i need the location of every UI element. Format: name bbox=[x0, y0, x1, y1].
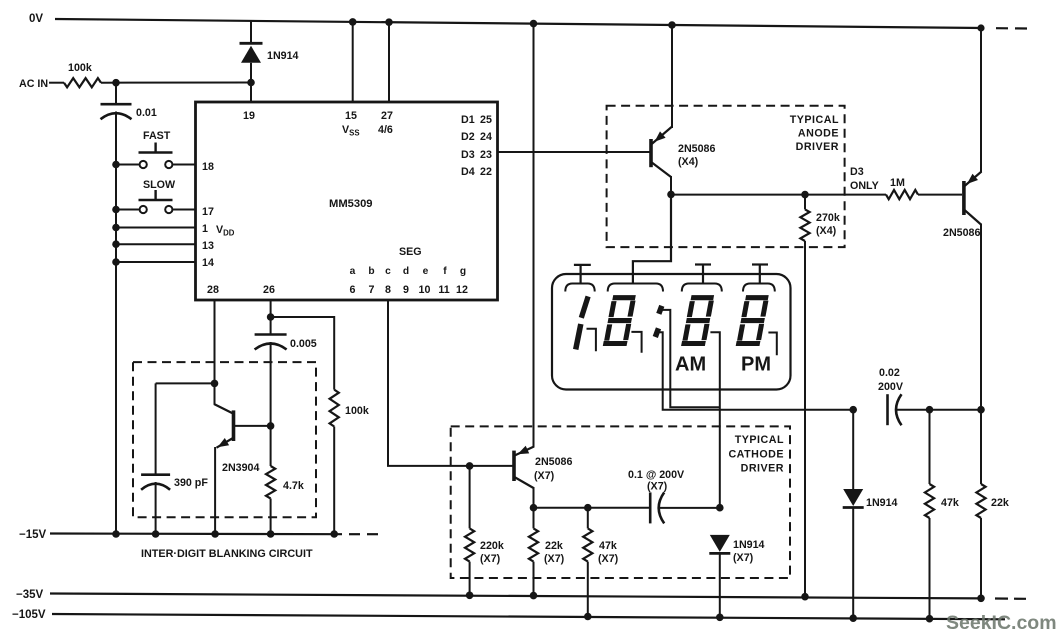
svg-text:7: 7 bbox=[369, 284, 375, 296]
node cathode collector junction bbox=[530, 504, 538, 512]
svg-text:−105V: −105V bbox=[12, 609, 46, 621]
svg-text:200V: 200V bbox=[878, 381, 904, 393]
node 22k right top junction bbox=[977, 406, 985, 414]
svg-text:2N5086: 2N5086 bbox=[943, 227, 980, 239]
svg-text:390 pF: 390 pF bbox=[174, 477, 208, 489]
svg-text:D1: D1 bbox=[461, 114, 475, 126]
svg-text:D4: D4 bbox=[461, 166, 475, 178]
op-amp U1 MM5309 package outline bbox=[196, 102, 498, 300]
svg-text:1N914: 1N914 bbox=[866, 497, 898, 509]
svg-text:0.01: 0.01 bbox=[136, 107, 157, 119]
digit 1 segment lead stub bbox=[587, 329, 596, 351]
svg-text:CATHODE: CATHODE bbox=[728, 449, 784, 461]
wire pin 27 lead to 0V bbox=[388, 22, 390, 102]
svg-text:PM: PM bbox=[741, 354, 771, 376]
wire SLOW to pin 17 bbox=[173, 209, 197, 211]
wire FAST to pin 18 bbox=[173, 164, 197, 166]
svg-text:AM: AM bbox=[675, 354, 706, 376]
svg-text:g: g bbox=[460, 266, 466, 277]
display digit 1 numeral 1 bbox=[576, 296, 588, 349]
node 220k bottom -35V junction bbox=[466, 592, 474, 600]
node 47k right top junction bbox=[926, 406, 934, 414]
capacitor 390 pF bbox=[141, 383, 170, 534]
transistor Q3 2N5086 cathode driver bbox=[514, 446, 535, 508]
svg-text:D2: D2 bbox=[461, 131, 475, 143]
wire 1M to Q2 base bbox=[918, 194, 962, 196]
wire pin 15 lead to 0V bbox=[352, 22, 354, 102]
wire 100k to pin 19 node bbox=[101, 82, 251, 84]
svg-text:c: c bbox=[385, 266, 391, 277]
wire seg pin 8 to cathode base bbox=[388, 300, 513, 466]
svg-text:(X7): (X7) bbox=[647, 481, 668, 493]
svg-text:28: 28 bbox=[207, 284, 219, 296]
transistor Q1 2N5086 anode driver bbox=[651, 127, 672, 194]
cathode driver dashed box bbox=[451, 426, 790, 578]
node pin27 rail junction bbox=[385, 18, 393, 26]
svg-text:SEG: SEG bbox=[399, 246, 422, 258]
switch SLOW pushbutton bbox=[139, 190, 173, 213]
svg-text:AC IN: AC IN bbox=[19, 78, 48, 90]
digit 1 anode bracket bbox=[565, 284, 594, 292]
svg-text:100k: 100k bbox=[345, 405, 369, 417]
node blanking collector junction bbox=[211, 380, 219, 388]
resistor 47k X7 bbox=[583, 508, 592, 617]
svg-text:−15V: −15V bbox=[19, 529, 47, 541]
wire 270k bottom to -35V bbox=[804, 241, 806, 597]
resistor 100k blanking bbox=[330, 390, 339, 534]
digit 2 segment lead stub bbox=[631, 332, 641, 353]
resistor 22k right bbox=[976, 410, 985, 599]
svg-text:6: 6 bbox=[350, 284, 356, 296]
svg-text:13: 13 bbox=[202, 240, 214, 252]
blanking circuit dashed box bbox=[133, 362, 316, 517]
node pin14 junction bbox=[112, 258, 120, 266]
wire 0.1 cap to 1N914 X7 bbox=[658, 507, 720, 509]
svg-text:FAST: FAST bbox=[143, 130, 171, 142]
digit 2 anode bracket bbox=[608, 284, 663, 292]
wire pin 14 bbox=[116, 261, 197, 263]
svg-text:2N5086: 2N5086 bbox=[535, 456, 572, 468]
svg-text:220k: 220k bbox=[480, 540, 504, 552]
wire colon lower to 0.02 junction bbox=[657, 332, 853, 410]
transistor Q2 2N5086 right bbox=[963, 172, 981, 410]
svg-text:TYPICAL: TYPICAL bbox=[735, 434, 784, 446]
svg-text:DRIVER: DRIVER bbox=[741, 463, 784, 475]
svg-text:ANODE: ANODE bbox=[798, 128, 839, 140]
wire Q2 emitter to 0V bbox=[980, 28, 982, 173]
svg-text:1: 1 bbox=[202, 223, 208, 235]
svg-text:b: b bbox=[368, 266, 374, 277]
wire D3 pin 23 to anode driver base bbox=[498, 151, 650, 153]
svg-text:270k: 270k bbox=[816, 212, 840, 224]
svg-text:11: 11 bbox=[438, 284, 449, 296]
resistor 47k right bbox=[925, 410, 934, 619]
svg-text:−35V: −35V bbox=[16, 589, 44, 601]
svg-text:(X4): (X4) bbox=[678, 156, 699, 168]
node 270k bottom -35V junction bbox=[801, 593, 809, 601]
wire left rail to SLOW bbox=[116, 209, 140, 211]
svg-text:0V: 0V bbox=[29, 13, 43, 25]
svg-text:0.005: 0.005 bbox=[290, 338, 317, 350]
capacitor 0.01 bbox=[101, 104, 132, 119]
node blanking base junction bbox=[267, 422, 275, 430]
node pin 26 junction bbox=[267, 313, 275, 321]
svg-text:22k: 22k bbox=[545, 540, 563, 552]
resistor 220k X7 bbox=[465, 466, 474, 595]
svg-text:14: 14 bbox=[202, 257, 214, 269]
node VDD junction bbox=[112, 224, 120, 232]
svg-text:19: 19 bbox=[243, 110, 255, 122]
-15V supply rail bbox=[50, 532, 342, 535]
-35V rail dashed continuation bbox=[995, 597, 1026, 599]
node 100k -15V junction bbox=[330, 530, 338, 538]
node pin13 junction bbox=[112, 240, 120, 248]
svg-text:2N3904: 2N3904 bbox=[222, 462, 259, 474]
display module outline bbox=[552, 274, 791, 390]
svg-text:MM5309: MM5309 bbox=[329, 198, 373, 210]
svg-text:18: 18 bbox=[202, 161, 214, 173]
svg-text:4.7k: 4.7k bbox=[283, 480, 304, 492]
svg-text:17: 17 bbox=[202, 206, 214, 218]
capacitor 0.1 X7 bbox=[650, 492, 664, 523]
svg-text:15: 15 bbox=[345, 110, 357, 122]
node AC junction bbox=[112, 79, 120, 87]
svg-text:(X7): (X7) bbox=[480, 553, 501, 565]
svg-text:10: 10 bbox=[419, 284, 431, 296]
wire pin 26 lead bbox=[270, 300, 272, 335]
svg-text:D3: D3 bbox=[850, 166, 864, 178]
diode 1N914 X7 cathode driver bbox=[709, 535, 730, 617]
svg-text:23: 23 bbox=[480, 149, 492, 161]
svg-text:VDD: VDD bbox=[216, 224, 235, 238]
node left column -15V junction bbox=[112, 530, 120, 538]
node 390pF -15V junction bbox=[152, 530, 160, 538]
svg-text:(X4): (X4) bbox=[816, 225, 837, 237]
capacitor 0.005 bbox=[255, 335, 287, 350]
node 22k bottom -35V junction bbox=[530, 592, 538, 600]
wire 0.005 to base node bbox=[270, 342, 272, 466]
wire left rail to FAST bbox=[116, 164, 140, 166]
svg-text:26: 26 bbox=[263, 284, 275, 296]
resistor 22k X7 bbox=[529, 508, 538, 596]
node anode collector junction bbox=[667, 191, 675, 199]
svg-text:47k: 47k bbox=[941, 497, 959, 509]
node FAST junction bbox=[112, 161, 120, 169]
svg-text:a: a bbox=[350, 266, 356, 277]
svg-text:12: 12 bbox=[456, 284, 468, 296]
wire pin 19 lead bbox=[250, 83, 252, 103]
transistor Q4 2N3904 blanking bbox=[214, 404, 269, 534]
wire AC IN to R 100k bbox=[49, 82, 64, 84]
svg-text:47k: 47k bbox=[599, 540, 617, 552]
display digit 3 numeral 8 bbox=[682, 298, 714, 344]
digit 4 segment lead stub bbox=[768, 333, 776, 356]
wire pin 13 bbox=[116, 243, 197, 245]
wire collector node to 390pF bbox=[156, 382, 215, 384]
wire collector bus to 0.1 cap bbox=[534, 507, 651, 509]
svg-text:1N914: 1N914 bbox=[733, 539, 765, 551]
node 1N914 X7 -105V junction bbox=[716, 614, 724, 622]
display colon bbox=[655, 306, 662, 337]
svg-text:22k: 22k bbox=[991, 497, 1009, 509]
0V rail dashed continuation bbox=[996, 27, 1027, 29]
node 4.7k -15V junction bbox=[267, 530, 275, 538]
svg-text:VSS: VSS bbox=[342, 124, 360, 138]
wire cathode emitter to 0V bbox=[533, 24, 535, 448]
node 47k X7 top junction bbox=[584, 504, 592, 512]
svg-text:100k: 100k bbox=[68, 62, 92, 74]
svg-text:2N5086: 2N5086 bbox=[678, 143, 715, 155]
wire digit 3 segment to cathode driver bbox=[710, 332, 719, 508]
svg-text:(X7): (X7) bbox=[733, 552, 754, 564]
display digit 2 numeral 8 bbox=[603, 298, 635, 344]
svg-text:22: 22 bbox=[480, 166, 492, 178]
svg-text:DRIVER: DRIVER bbox=[796, 141, 839, 153]
node cathode emitter rail junction bbox=[530, 20, 538, 28]
node 47k right -105V junction bbox=[926, 615, 934, 623]
capacitor 0.02 200V bbox=[888, 394, 902, 425]
svg-text:INTER·DIGIT BLANKING CIRCUIT: INTER·DIGIT BLANKING CIRCUIT bbox=[141, 548, 313, 560]
diode 1N914 input clamp bbox=[240, 21, 263, 83]
node SLOW junction bbox=[112, 206, 120, 214]
svg-text:SeekIC.com: SeekIC.com bbox=[946, 612, 1057, 634]
svg-text:0.1 @ 200V: 0.1 @ 200V bbox=[628, 469, 685, 481]
digit 3 anode lead bbox=[695, 265, 711, 284]
svg-text:e: e bbox=[423, 266, 429, 277]
wire pin 28 to collector node bbox=[214, 300, 216, 405]
svg-text:f: f bbox=[443, 266, 447, 277]
svg-text:(X7): (X7) bbox=[544, 553, 565, 565]
node pin15 rail junction bbox=[349, 18, 357, 26]
svg-text:1N914: 1N914 bbox=[267, 50, 299, 62]
svg-text:TYPICAL: TYPICAL bbox=[790, 114, 839, 126]
wire pin 1 VDD bbox=[116, 227, 197, 229]
svg-text:(X7): (X7) bbox=[598, 553, 619, 565]
svg-text:24: 24 bbox=[480, 131, 492, 143]
wire collector to 1M bbox=[671, 194, 886, 196]
node anode emitter rail junction bbox=[668, 21, 676, 29]
svg-text:D3: D3 bbox=[461, 149, 475, 161]
anode driver dashed box bbox=[607, 106, 845, 247]
node Q2 emitter rail junction bbox=[977, 24, 984, 31]
wire 0.02 cap to 47k 22k bbox=[895, 409, 981, 411]
node diode anode junction bbox=[247, 79, 255, 87]
resistor 100k input bbox=[64, 78, 101, 87]
svg-text:ONLY: ONLY bbox=[850, 180, 879, 192]
node 1N914 X7 junction bbox=[716, 504, 724, 512]
display digit 4 numeral 8 bbox=[736, 298, 768, 344]
wire anode emitter to 0V bbox=[671, 25, 673, 128]
svg-text:25: 25 bbox=[480, 114, 492, 126]
wire colon upper to bus bbox=[661, 310, 719, 407]
svg-text:SLOW: SLOW bbox=[143, 179, 176, 191]
resistor 270k bbox=[800, 195, 809, 241]
svg-text:0.02: 0.02 bbox=[879, 367, 900, 379]
diode 1N914 right bbox=[843, 410, 864, 619]
svg-text:d: d bbox=[403, 266, 409, 277]
node 47k bottom -105V junction bbox=[584, 613, 592, 621]
svg-text:(X7): (X7) bbox=[534, 470, 555, 482]
resistor 1M bbox=[886, 190, 918, 199]
-105V supply rail bbox=[52, 614, 1005, 619]
-15V rail dashed continuation bbox=[349, 533, 378, 535]
wire anode driver collector to digit 2 bbox=[633, 194, 671, 283]
digit 4 anode lead bbox=[752, 265, 768, 284]
svg-text:4/6: 4/6 bbox=[378, 124, 393, 136]
svg-text:1M: 1M bbox=[890, 177, 905, 189]
resistor 4.7k bbox=[266, 466, 275, 534]
digit 1 anode lead bbox=[574, 265, 591, 284]
svg-text:9: 9 bbox=[403, 284, 409, 296]
svg-text:27: 27 bbox=[381, 110, 393, 122]
node 22k right -35V junction bbox=[977, 595, 985, 603]
svg-text:8: 8 bbox=[385, 284, 391, 296]
0V supply rail bbox=[55, 19, 983, 28]
digit 4 anode bracket bbox=[743, 284, 775, 292]
wire left column vertical bbox=[115, 83, 117, 534]
wire pin 26 branch to 100k bbox=[271, 317, 335, 390]
digit 3 anode bracket bbox=[682, 284, 722, 292]
node 220k top junction bbox=[466, 462, 474, 470]
node 270k top junction bbox=[801, 191, 809, 199]
switch FAST pushbutton bbox=[139, 143, 173, 169]
node emitter -15V junction bbox=[211, 530, 219, 538]
node 0.02 junction bbox=[849, 406, 857, 414]
-35V supply rail bbox=[50, 594, 981, 599]
node 1N914 right -105V junction bbox=[849, 614, 857, 622]
